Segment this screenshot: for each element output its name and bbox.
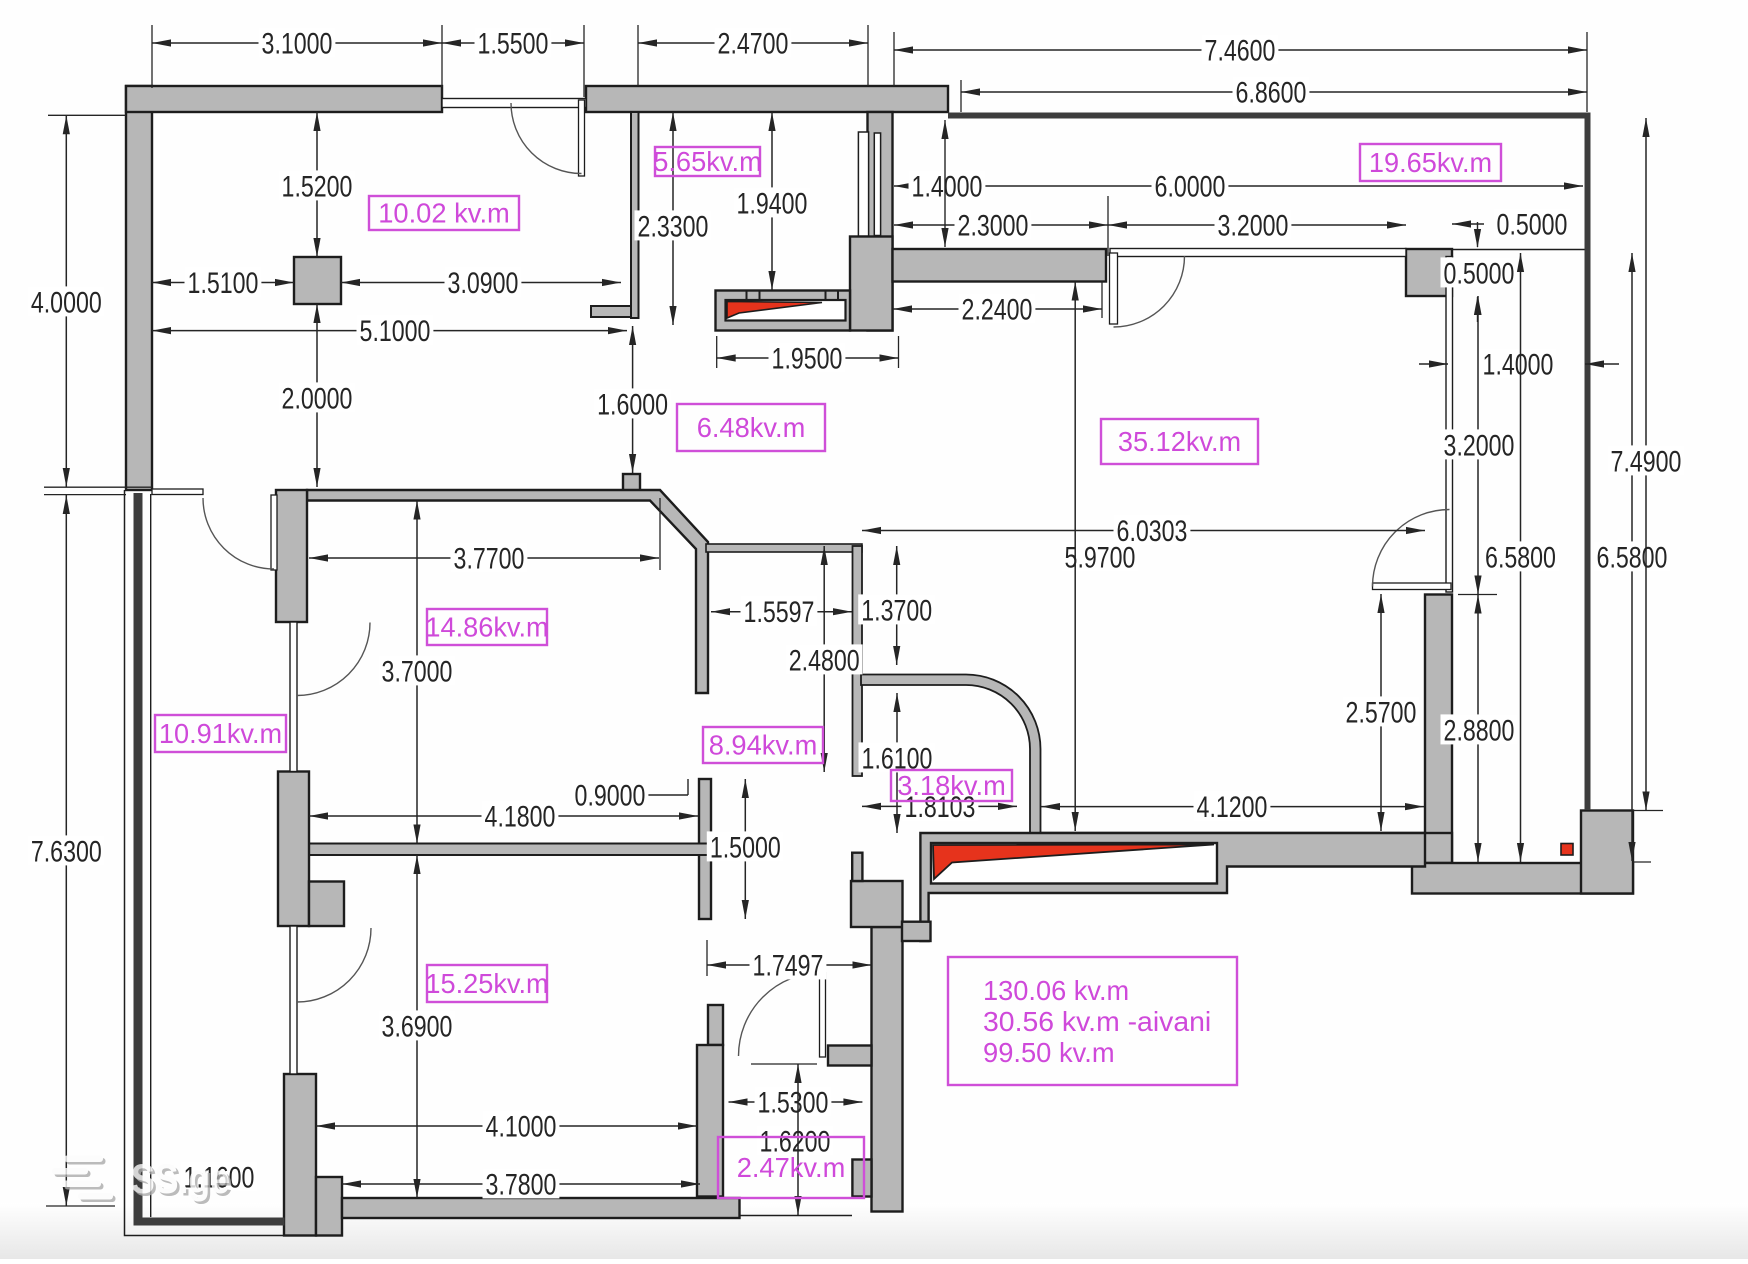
wall: south wall of 15.25 [342, 1198, 740, 1218]
label 35.12 kv.m [1101, 419, 1258, 464]
dim 2.2400 [893, 308, 1102, 310]
door: room 15.25 door arc [297, 928, 371, 1002]
svg-text:14.86kv.m: 14.86kv.m [425, 612, 548, 643]
stair slab: outer gray [716, 291, 851, 331]
svg-text:7.4600: 7.4600 [1205, 34, 1276, 67]
wall: curved wall of nook 3.18 [861, 675, 1041, 835]
svg-text:3.7700: 3.7700 [454, 542, 525, 575]
dim 1.4000/6.0000 line [894, 185, 1583, 187]
dim 0.5000 pier height [1477, 222, 1479, 247]
svg-text:5.65kv.m: 5.65kv.m [653, 146, 762, 177]
aivani: inner white tray [931, 843, 1217, 884]
door: top-left entry door leaf and arc [579, 100, 585, 176]
svg-text:6.8600: 6.8600 [1236, 76, 1307, 109]
svg-text:4.1000: 4.1000 [486, 1110, 557, 1143]
outline: balcony 10.91 outer thin boundary [125, 490, 343, 1236]
dim 1.5200 [316, 112, 318, 257]
svg-text:2.0000: 2.0000 [282, 382, 353, 415]
dim 1.5300 [729, 1101, 863, 1103]
svg-text:1.3700: 1.3700 [861, 594, 932, 627]
svg-text:8.94kv.m: 8.94kv.m [709, 730, 818, 761]
door: terrace door from 35.12 [1373, 583, 1452, 590]
line: balcony 10.91 inner face [150, 494, 152, 1217]
svg-text:2.2400: 2.2400 [962, 293, 1033, 326]
svg-text:15.25kv.m: 15.25kv.m [425, 968, 548, 999]
thin wall: 15.25 west [290, 926, 297, 1074]
wall: left exterior wall of room 10.02 [126, 86, 152, 490]
dim 7.4900 [1645, 118, 1647, 811]
svg-text:3.7800: 3.7800 [486, 1168, 557, 1201]
dim 1.7497 [707, 964, 872, 966]
svg-text:1.6000: 1.6000 [597, 388, 668, 421]
wall: NE pier of 35.12 (0.5x0.5) [1406, 249, 1452, 296]
svg-text:6.5800: 6.5800 [1485, 541, 1556, 574]
dim line WC vertical [797, 1064, 799, 1215]
dim 1.3700 [896, 546, 898, 665]
svg-text:3.2000: 3.2000 [1444, 429, 1515, 462]
svg-text:10.02 kv.m: 10.02 kv.m [378, 198, 510, 229]
dim 3.0900 [341, 282, 621, 284]
extension lines top [151, 25, 153, 88]
rail: terrace top dark line [948, 113, 1590, 119]
svg-text:4.1200: 4.1200 [1197, 791, 1268, 824]
svg-text:1.5100: 1.5100 [188, 267, 259, 300]
dim 6.5800 b [1631, 253, 1633, 861]
dim 0.5000 pier width [1452, 223, 1484, 225]
wall: east wall of hall 5.65 [868, 112, 893, 331]
thin line: terrace boundary right of pier [1452, 249, 1585, 251]
wall: top exterior wall left segment [126, 86, 442, 112]
svg-text:2.47kv.m: 2.47kv.m [737, 1152, 846, 1183]
dim 2.0000 [316, 304, 318, 487]
wall: SE corner block [1581, 811, 1633, 894]
dim 1.8103 [862, 805, 1017, 807]
svg-text:10.91kv.m: 10.91kv.m [159, 718, 282, 749]
glass wall: 35.12 east thin wall [1446, 257, 1453, 593]
window: left segment of balcony 10.91 head wall [152, 489, 203, 495]
svg-text:3.0900: 3.0900 [448, 267, 519, 300]
svg-text:1.7497: 1.7497 [753, 949, 824, 982]
label 2.47 kv.m [718, 1137, 864, 1198]
stair tick 1 [746, 291, 748, 300]
small circle fixture on bathroom wall [849, 652, 860, 670]
column in room 10.02 [294, 257, 341, 304]
dim 4.1000 [316, 1125, 697, 1127]
dim 3.2000 top [1108, 224, 1406, 226]
svg-text:2.3000: 2.3000 [958, 209, 1029, 242]
dim 1.9500 [717, 357, 899, 359]
wall: WC west wall [697, 1045, 723, 1197]
wall: mid-left pier wide part [309, 882, 344, 927]
window: top wall opening 1.55 [442, 99, 586, 108]
wall: WC east wall / aivani west bar [872, 927, 903, 1212]
svg-text:3.1000: 3.1000 [262, 27, 333, 60]
svg-text:2.4800: 2.4800 [789, 644, 860, 677]
label 10.91 kv.m [155, 715, 286, 752]
dim 3.1000 top [152, 42, 442, 44]
dim 2.5700 [1380, 594, 1382, 831]
wall: pier left of room 35.12 entry [850, 237, 893, 331]
wall: bathroom north thin wall [706, 544, 862, 552]
dim 0.9000 leader [648, 794, 688, 796]
dim 1.5100 [152, 282, 294, 284]
svg-text:2.8800: 2.8800 [1444, 714, 1515, 747]
wall: pier on west side (balcony 10.91 top) [276, 490, 307, 622]
wall: small tab above diagonal corner [623, 474, 640, 491]
aivani slab: gray outline shape [920, 833, 1425, 941]
svg-text:4.1800: 4.1800 [485, 800, 556, 833]
wall: nook west wall stub [852, 853, 862, 881]
stair slab: inner white tray [726, 300, 846, 321]
label 6.48 kv.m [677, 404, 825, 451]
svg-text:99.50 kv.m: 99.50 kv.m [983, 1037, 1115, 1068]
label 14.86 kv.m [427, 609, 547, 645]
dim 7.6300 left [65, 495, 67, 1206]
ext line centre vertical [1074, 282, 1076, 832]
svg-text:7.4900: 7.4900 [1611, 445, 1682, 478]
svg-text:2.4700: 2.4700 [718, 27, 789, 60]
label 19.65 kv.m [1360, 144, 1501, 181]
dim 2.4700 top [638, 42, 868, 44]
svg-text:6.48kv.m: 6.48kv.m [697, 412, 806, 443]
svg-text:0.5000: 0.5000 [1444, 257, 1515, 290]
wall: top wall of room 35.12 (west part) [893, 249, 1107, 282]
aivani red wedge [933, 845, 1214, 880]
red square marker bottom right [1561, 844, 1573, 856]
wall: bathroom east wall [853, 546, 863, 776]
wall: WC west wall upper [708, 1005, 723, 1045]
wall: WC NE notch block [828, 1046, 872, 1066]
dim 2.3000 [894, 224, 1108, 226]
wall: west pier of 15.25 wide bottom [316, 1177, 342, 1236]
wall: aivani shaft bottom chunk 2 [902, 922, 931, 941]
wall: north wall of 14.86 with diagonal corner [307, 490, 708, 693]
dim 6.5800 a [1520, 253, 1522, 862]
wall: south chunk of nook 3.18 [851, 881, 903, 927]
wall: WC SE pier [852, 1160, 871, 1197]
window: hall east window to terrace [858, 132, 868, 236]
svg-text:19.65kv.m: 19.65kv.m [1369, 147, 1492, 178]
dim 4.1800 [309, 815, 698, 817]
label 15.25 kv.m [427, 965, 547, 1002]
thin wall: 14.86 west (upper) [290, 622, 297, 772]
svg-text:1.5597: 1.5597 [744, 596, 815, 629]
dim 1.5500 top [442, 42, 584, 44]
wall: east pier of 35.12 south part [1425, 595, 1452, 864]
svg-text:3.18kv.m: 3.18kv.m [897, 770, 1006, 801]
label 8.94 kv.m [703, 727, 823, 763]
svg-text:1.4000: 1.4000 [912, 170, 983, 203]
dim 1.4000 vertical terrace strip [944, 120, 946, 247]
rail: balcony 10.91 dark south line [137, 1218, 285, 1226]
svg-text:35.12kv.m: 35.12kv.m [1118, 426, 1241, 457]
dim 5.1000 [152, 330, 627, 332]
dim 2.4800 [823, 546, 825, 772]
dim 6.0303 [862, 530, 1425, 532]
dim 4.0000 left [65, 115, 67, 487]
wall: south wall of 35.12 [1041, 833, 1452, 863]
dim 1.4000 right terrace [1419, 363, 1448, 365]
wall: mid-left pier complex [278, 772, 309, 927]
dim 4.1200 [1041, 806, 1424, 808]
door: balcony 10.91 head door [271, 495, 277, 570]
svg-text:2.3300: 2.3300 [638, 210, 709, 243]
svg-text:0.5000: 0.5000 [1497, 208, 1568, 241]
svg-text:1.9500: 1.9500 [772, 342, 843, 375]
stair red wedge [727, 302, 822, 319]
door: room 35.12 entry door [1110, 253, 1118, 324]
svg-text:1.5200: 1.5200 [282, 170, 353, 203]
dim 1.5000 [744, 779, 746, 919]
svg-text:1.4000: 1.4000 [1483, 348, 1554, 381]
svg-text:SS.ge: SS.ge [131, 1155, 230, 1202]
svg-text:5.1000: 5.1000 [360, 315, 431, 348]
svg-text:1.5500: 1.5500 [478, 27, 549, 60]
door: WC door leaf and arc [820, 973, 826, 1058]
door: room 14.86 door arc [297, 623, 370, 696]
label 10.02 kv.m [369, 196, 519, 230]
dim 3.7700 [309, 557, 659, 559]
dim 1.5597 [711, 611, 852, 613]
dim 6.8600 [961, 91, 1587, 93]
svg-text:3.2000: 3.2000 [1218, 209, 1289, 242]
svg-text:130.06 kv.m: 130.06 kv.m [983, 975, 1129, 1006]
svg-text:6.0000: 6.0000 [1155, 170, 1226, 203]
rail: balcony 10.91 dark west line [134, 493, 143, 1226]
svg-text:1.5300: 1.5300 [758, 1086, 829, 1119]
window: 3.2 window wall of room 35.12 to terrace [1110, 249, 1406, 257]
dim 7.4600 top [894, 49, 1587, 51]
svg-text:7.6300: 7.6300 [31, 835, 102, 868]
stair tick 2 [825, 291, 827, 300]
wall: west pier of 15.25 [284, 1074, 316, 1236]
dim 1.9400 [771, 112, 773, 290]
svg-text:0.9000: 0.9000 [575, 779, 646, 812]
svg-text:6.5800: 6.5800 [1597, 541, 1668, 574]
dim 3.2000/2.8800 vertical line [1477, 296, 1479, 862]
dim 3.7000 [416, 501, 418, 844]
svg-text:2.5700: 2.5700 [1346, 696, 1417, 729]
svg-text:1.5000: 1.5000 [710, 831, 781, 864]
wall: partition between 10.02 and 5.65 hall [631, 112, 639, 318]
window sill: WC south opening [740, 1215, 853, 1217]
wall: partition foot jut [591, 306, 631, 317]
rail: terrace right dark line [1585, 113, 1591, 811]
dim 2.3300 [672, 112, 674, 325]
svg-text:4.0000: 4.0000 [31, 286, 102, 319]
wall: west wall of bathroom lower segment [699, 779, 711, 919]
dim 1.6000 [632, 326, 634, 473]
wall: south band bottom-right [1412, 863, 1633, 894]
svg-text:30.56 kv.m -aivani: 30.56 kv.m -aivani [983, 1006, 1211, 1037]
svg-text:3.7000: 3.7000 [382, 655, 453, 688]
wall: top exterior wall right segment [586, 86, 948, 112]
label 5.65 kv.m [655, 147, 760, 176]
svg-text:1.9400: 1.9400 [737, 187, 808, 220]
dim 3.6900 [416, 855, 418, 1198]
wall: divider between 14.86 and 15.25 [309, 844, 708, 856]
label 3.18 kv.m [891, 770, 1012, 801]
label area summary box [948, 957, 1237, 1085]
dim 3.7800 [342, 1183, 700, 1185]
watermark SS.ge [52, 1155, 233, 1205]
dim 1.6100 [896, 693, 898, 833]
svg-text:3.6900: 3.6900 [382, 1010, 453, 1043]
